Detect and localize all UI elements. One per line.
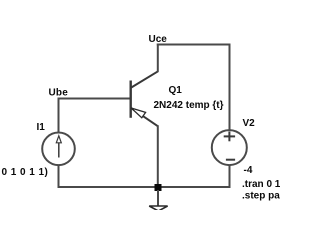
wire base (Ube node to Q1 base): [59, 98, 132, 100]
wire collector vertical: [157, 44, 159, 72]
svg-text:Uce: Uce: [149, 34, 168, 45]
transistor Q1 emitter diagonal: [131, 108, 158, 127]
wire top rail Uce: [157, 44, 231, 46]
svg-text:.step param: .step param: [242, 191, 280, 202]
svg-text:Q1: Q1: [169, 85, 183, 96]
svg-text:2N242 temp {t}: 2N242 temp {t}: [154, 100, 224, 111]
junction node square: [155, 184, 162, 191]
svg-text:I1: I1: [37, 122, 46, 133]
transistor Q1 base bar: [129, 81, 131, 118]
wire bottom rail: [58, 186, 231, 188]
voltage source V2: [212, 130, 247, 165]
wire V2 top vertical: [229, 44, 231, 132]
svg-text:-4: -4: [244, 165, 253, 176]
transistor Q1 collector diagonal: [131, 71, 159, 88]
wire emitter vertical down to junction: [157, 125, 159, 188]
svg-text:V2: V2: [243, 118, 256, 129]
ground symbol: [149, 206, 167, 211]
wire V2 bottom vertical: [229, 165, 231, 188]
current source I1: [42, 133, 75, 166]
wire Ube corner down to I1 top: [58, 98, 60, 134]
svg-text:Ube: Ube: [49, 88, 69, 99]
wire junction to ground: [157, 190, 159, 206]
transistor Q1 emitter arrow: [131, 108, 145, 118]
svg-text:0 1 0 1 1): 0 1 0 1 1): [2, 167, 49, 178]
svg-text:.tran 0 10: .tran 0 10: [242, 179, 280, 190]
wire I1 bottom down: [58, 165, 60, 188]
